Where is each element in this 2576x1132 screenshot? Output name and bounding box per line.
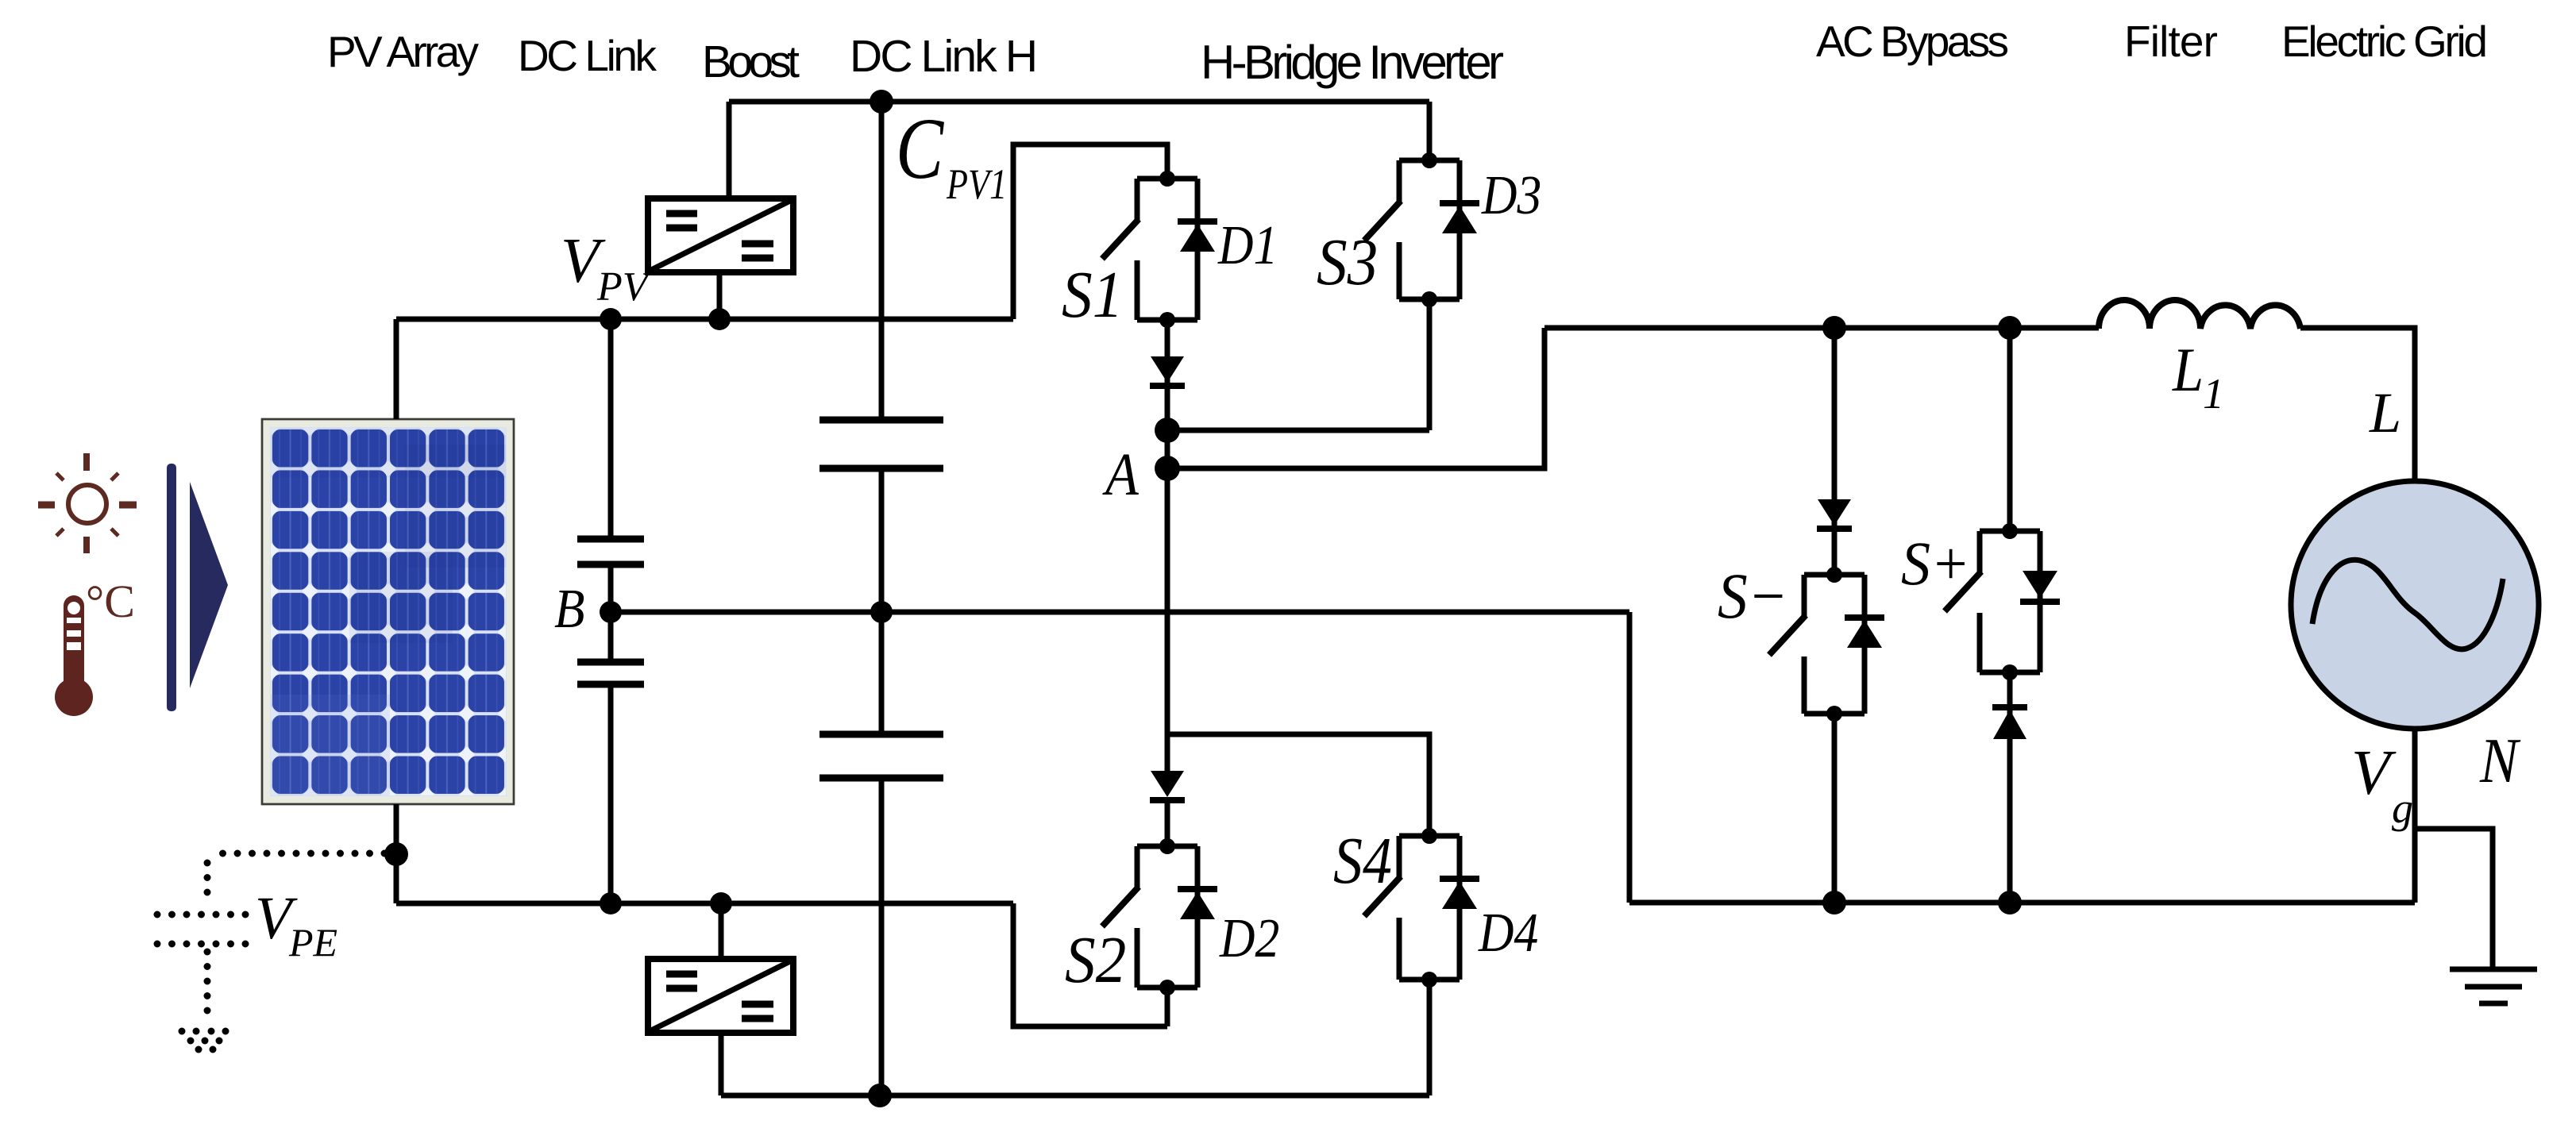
svg-text:V: V — [2351, 738, 2397, 808]
wire boost1 bottom lead — [717, 272, 723, 319]
svg-text:PV Array: PV Array — [327, 27, 480, 76]
irradiance arrow triangle — [190, 482, 228, 688]
S3 IGBT bottom terminal dot — [1421, 291, 1437, 307]
svg-text:Electric Grid: Electric Grid — [2281, 17, 2488, 66]
node S1-S3 junction — [1155, 418, 1180, 443]
wire into S2 — [1165, 800, 1170, 846]
sun icon — [38, 453, 137, 553]
wire A down to S2 — [1165, 468, 1170, 772]
wire grid bottom lead — [2412, 729, 2418, 903]
dotted wire V_PE vertical lower — [204, 952, 211, 1024]
S-minus IGBT top terminal dot — [1826, 567, 1842, 583]
S3 IGBT switch body — [1364, 160, 1460, 299]
svg-text:PV1: PV1 — [946, 160, 1007, 208]
node DC link H bottom — [868, 1084, 892, 1107]
svg-text:DC Link H: DC Link H — [850, 31, 1038, 82]
wire S3 bottom lead — [1427, 299, 1433, 430]
capacitor DC link lower — [577, 662, 644, 684]
wire CPV1 to B bus — [879, 468, 885, 612]
svg-text:S+: S+ — [1901, 529, 1970, 598]
svg-text:°C: °C — [86, 576, 135, 627]
wire DC link H lower cap top lead — [879, 612, 885, 734]
diode below S1 (series diode pointing down) — [1150, 356, 1185, 386]
svg-text:D3: D3 — [1481, 164, 1541, 226]
S3 IGBT top terminal dot — [1421, 152, 1437, 168]
svg-text:g: g — [2392, 784, 2413, 832]
irradiance arrow bar — [167, 464, 176, 711]
svg-text:Filter: Filter — [2124, 17, 2218, 66]
S2 IGBT anti-parallel diode (pointing up) — [1178, 889, 1217, 919]
node boost2 in — [710, 892, 732, 914]
svg-text:D2: D2 — [1219, 907, 1279, 969]
wire DC link upper cap bottom lead — [608, 564, 614, 612]
S-plus IGBT top terminal dot — [2002, 523, 2018, 539]
wire H-bridge minus bus — [721, 1093, 1429, 1099]
svg-text:S4: S4 — [1333, 824, 1392, 898]
svg-text:S1: S1 — [1062, 258, 1123, 332]
diode above S2 (series diode pointing down) — [1150, 771, 1185, 800]
boost converter U1 (DC-DC boost converter box) — [648, 198, 793, 272]
svg-text:S−: S− — [1718, 560, 1788, 633]
wire boost1 top lead — [727, 102, 732, 198]
S1 IGBT bottom terminal dot — [1159, 312, 1175, 328]
svg-text:S2: S2 — [1065, 923, 1126, 997]
S-plus IGBT bottom terminal dot — [2002, 664, 2018, 680]
svg-text:L: L — [2369, 381, 2401, 445]
S2 IGBT bottom terminal dot — [1159, 980, 1175, 995]
node DC link bottom — [600, 892, 622, 914]
node S-plus bottom — [1998, 891, 2022, 914]
wire DC link H plus bus — [729, 99, 1429, 105]
S-plus IGBT switch body — [1945, 531, 2040, 672]
S1 IGBT switch body — [1102, 179, 1197, 320]
capacitor C_PV1 upper (DC Link H) — [819, 420, 943, 468]
wire junction to S3 — [1167, 428, 1429, 433]
wire B to bypass bottom — [1627, 612, 1633, 903]
AC source V_g (electric grid) — [2291, 481, 2539, 729]
wire CPV1 drop — [879, 102, 885, 420]
node boost1 out — [708, 308, 731, 330]
svg-text:DC Link: DC Link — [518, 31, 657, 80]
svg-text:PV: PV — [596, 264, 652, 310]
wire S2 return jog — [1013, 903, 1167, 1026]
node S-minus top — [1822, 316, 1846, 340]
svg-text:1: 1 — [2203, 370, 2224, 418]
svg-text:N: N — [2479, 726, 2521, 796]
svg-text:L: L — [2172, 337, 2204, 405]
wire DC link upper cap top lead — [608, 319, 614, 539]
ground — [2450, 969, 2537, 1003]
wire PV plus bus — [396, 317, 1013, 322]
capacitor V_PE (dotted) plate 2 — [157, 941, 248, 948]
sine wave inside AC source — [2312, 560, 2503, 649]
PV array panel photo — [262, 419, 514, 804]
wire S1 feed from bus — [1013, 144, 1167, 319]
node DC link H mid — [870, 601, 893, 623]
diode above S-minus (series diode pointing down) — [1817, 499, 1852, 529]
S-plus IGBT anti-parallel diode (pointing down) — [2020, 571, 2060, 602]
S-minus IGBT anti-parallel diode (pointing up) — [1845, 618, 1884, 648]
svg-text:PE: PE — [288, 920, 337, 965]
svg-text:C: C — [896, 100, 945, 197]
S4 IGBT bottom terminal dot — [1421, 972, 1437, 988]
wire S-plus chain — [2007, 328, 2013, 531]
wire S2 bottom lead — [1165, 988, 1170, 1026]
wire bypass top bus — [1544, 325, 2099, 331]
svg-text:H-Bridge Inverter: H-Bridge Inverter — [1201, 36, 1504, 89]
wire S4 bottom lead — [1427, 980, 1433, 1095]
wire DC link H lower cap bottom lead — [879, 778, 885, 1095]
wire S3 top lead — [1427, 102, 1433, 160]
svg-text:D1: D1 — [1217, 214, 1278, 276]
svg-text:A: A — [1102, 441, 1139, 508]
node S-minus bottom — [1822, 891, 1846, 914]
svg-text:B: B — [554, 579, 584, 640]
S-minus IGBT switch body — [1769, 575, 1865, 714]
wire DC link lower cap top lead — [608, 612, 614, 662]
S2 IGBT switch body — [1102, 846, 1197, 988]
capacitor DC Link H lower — [819, 734, 943, 778]
S-minus IGBT bottom terminal dot — [1826, 706, 1842, 722]
S1 IGBT anti-parallel diode (pointing up) — [1178, 221, 1217, 252]
wire boost2 bottom lead — [719, 1033, 724, 1095]
inductor L1 — [2099, 300, 2300, 329]
wire grid to ground — [2415, 829, 2493, 968]
svg-text:D4: D4 — [1478, 902, 1538, 964]
S4 IGBT switch body — [1364, 836, 1460, 980]
svg-text:Boost: Boost — [702, 37, 800, 87]
wire to S4 top — [1167, 734, 1429, 836]
S2 IGBT top terminal dot — [1159, 838, 1175, 854]
wire S1 to A — [1165, 320, 1170, 468]
wire S-plus bottom lead — [2007, 672, 2013, 903]
wire A to filter — [1167, 328, 1544, 468]
node CPV1 top — [870, 90, 893, 114]
dotted wire V_PE vertical upper — [204, 863, 211, 907]
node A — [1155, 456, 1180, 481]
S1 IGBT top terminal dot — [1159, 171, 1175, 187]
thermometer icon — [55, 595, 93, 716]
wire PV minus bus — [396, 901, 1013, 907]
diode below S-plus (series diode pointing up) — [1992, 707, 2027, 739]
wire PV top lead — [394, 319, 399, 419]
boost converter U2 (DC-DC boost converter box) — [648, 959, 793, 1033]
svg-text:S3: S3 — [1317, 225, 1378, 299]
wire L1 to grid — [2300, 328, 2415, 481]
capacitor DC link upper — [577, 539, 644, 564]
capacitor V_PE (dotted) plate 1 — [157, 911, 248, 918]
wire S-minus bottom lead — [1832, 714, 1838, 903]
node B — [600, 601, 622, 623]
wire boost2 top lead — [719, 903, 724, 959]
dotted arrowhead — [179, 1028, 229, 1053]
wire PV bottom lead — [394, 804, 399, 903]
svg-text:AC Bypass: AC Bypass — [1816, 17, 2009, 66]
wire S-minus chain — [1832, 328, 1838, 575]
dotted wire V_PE horizontal — [210, 850, 384, 857]
wire DC link lower cap bottom lead — [608, 684, 614, 903]
node DC link top — [600, 308, 622, 330]
S4 IGBT top terminal dot — [1421, 828, 1437, 844]
node S-plus top — [1998, 316, 2022, 340]
wire bypass bottom bus — [1629, 900, 2415, 906]
S4 IGBT anti-parallel diode (pointing up) — [1440, 879, 1479, 909]
wire B bus — [611, 610, 1629, 615]
node V_PE tap — [384, 842, 408, 866]
S3 IGBT anti-parallel diode (pointing up) — [1440, 203, 1479, 233]
